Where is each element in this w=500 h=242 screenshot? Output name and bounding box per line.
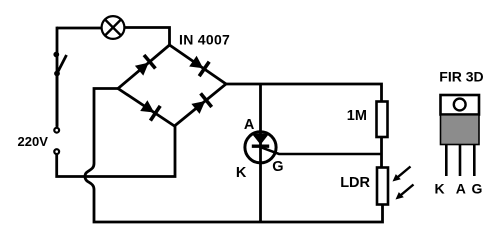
svg-text:G: G	[472, 181, 483, 197]
svg-text:LDR: LDR	[340, 175, 370, 191]
wire: bridge right vertex to resistor branch	[226, 84, 382, 102]
bridge diode D3 (1N4007)	[140, 100, 160, 120]
switch S1 (open)	[53, 52, 66, 77]
svg-text:G: G	[272, 159, 283, 175]
lamp L1	[102, 16, 125, 39]
SCR gate lead	[261, 147, 382, 154]
wire: SCR anode branch	[259, 84, 262, 146]
wire: left rail corner vertical	[57, 28, 58, 55]
wire: switch to upper supply terminal	[56, 74, 59, 127]
svg-text:K: K	[435, 181, 445, 197]
svg-text:FIR 3D: FIR 3D	[439, 69, 483, 85]
photoresistor LDR	[377, 168, 388, 205]
svg-text:K: K	[236, 165, 247, 181]
bridge diode D2 (1N4007)	[189, 56, 209, 76]
svg-text:IN 4007: IN 4007	[179, 31, 230, 47]
svg-text:A: A	[456, 181, 466, 197]
bridge diode D1 (1N4007)	[135, 55, 156, 76]
bridge diode D4 (1N4007)	[191, 93, 211, 114]
svg-text:A: A	[244, 117, 255, 133]
wire: bridge left vertex to bottom rail (with crossover hop)	[85, 89, 383, 223]
svg-text:220V: 220V	[18, 134, 49, 149]
package pin G	[473, 145, 476, 176]
wire: bridge diamond sides	[118, 45, 226, 126]
wire: lamp to bridge top	[125, 28, 170, 46]
wire: resistor to gate junction	[380, 137, 383, 168]
svg-text:1M: 1M	[347, 108, 367, 124]
wire: SCR cathode to bottom rail	[259, 147, 262, 222]
LDR light arrows	[393, 167, 414, 200]
package pin K	[445, 145, 448, 176]
resistor R1 1M	[377, 102, 388, 138]
220V supply terminal (upper)	[54, 128, 59, 133]
SCR U1 (TIC106 / FIR 3D)	[245, 132, 276, 163]
wire: top-left corner, 220V rail up to lamp	[57, 28, 101, 127]
package FIR 3D (TO-220 outline)	[441, 95, 480, 145]
220V supply terminal (lower)	[54, 149, 59, 154]
wire: lower supply terminal to bridge bottom vertex	[57, 126, 175, 177]
package pin A	[459, 145, 462, 176]
